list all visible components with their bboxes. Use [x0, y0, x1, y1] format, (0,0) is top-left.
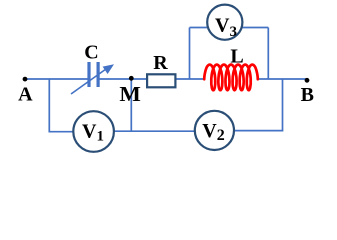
voltmeter V1 [73, 111, 114, 152]
node A dot [23, 77, 28, 82]
wire bottom to V1 [49, 131, 74, 133]
capacitor variable arrow [71, 64, 114, 94]
inductor L coil [204, 65, 258, 91]
wire inductor to B [258, 78, 307, 80]
node B dot [305, 78, 310, 83]
wire V3 right vertical [267, 28, 269, 80]
wire V3 left horizontal [190, 27, 208, 29]
wire bottom-right vertical [282, 79, 284, 131]
capacitor C plates [89, 62, 98, 87]
wire A to capacitor [25, 78, 88, 80]
wire V2 to bottom-right vertical [235, 130, 284, 132]
svg-text:M: M [119, 82, 141, 106]
svg-text:C: C [84, 42, 98, 64]
svg-text:L: L [230, 46, 243, 68]
svg-text:R: R [153, 52, 168, 74]
voltmeter V2 [195, 111, 234, 150]
wire M vertical branch [130, 79, 132, 132]
wire bottom-left vertical [48, 79, 50, 132]
svg-text:A: A [18, 83, 33, 105]
svg-text:B: B [301, 84, 314, 106]
node M dot [129, 76, 134, 81]
resistor R [147, 74, 175, 87]
wire V3 right horizontal [243, 27, 269, 29]
wire capacitor to resistor through node M [100, 78, 147, 80]
wire V1 to V2 [114, 130, 195, 132]
voltmeter V3 [207, 5, 242, 40]
wire V3 left vertical [189, 28, 191, 80]
wire resistor to inductor [176, 78, 205, 80]
